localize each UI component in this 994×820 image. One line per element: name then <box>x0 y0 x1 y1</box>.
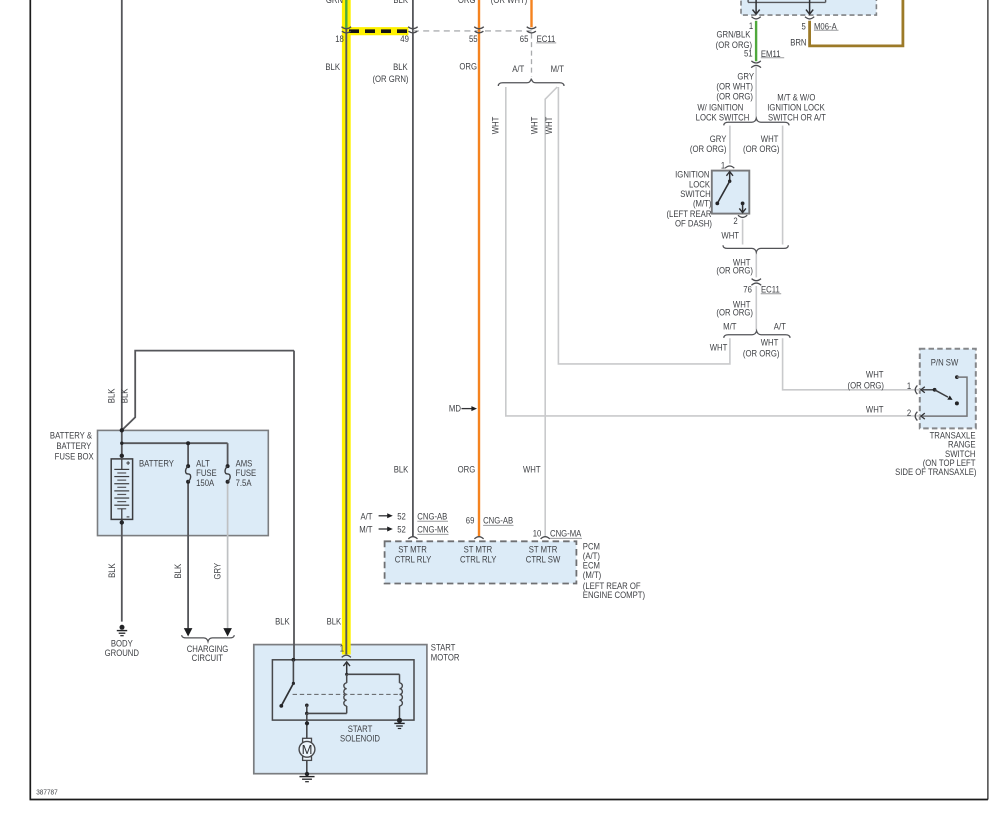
wire WHT M/T branch to 10 CNG-MA <box>545 87 557 536</box>
label pin 55 <box>469 34 478 45</box>
pin 1 connector arc M06-A <box>752 17 761 19</box>
label GRY (OR ORG) <box>690 134 727 155</box>
label (OR WHT) wire (cut at top) <box>491 0 528 5</box>
label WHT at P/N SW pin 2 <box>866 404 884 415</box>
coil pull-in winding L1 <box>344 674 347 713</box>
label GRN wire (cut at top) <box>326 0 343 5</box>
svg-text:ORG: ORG <box>458 0 476 5</box>
label GRY (OR WHT) (OR ORG) <box>716 71 754 102</box>
svg-text:BATTERY: BATTERY <box>56 441 91 452</box>
svg-text:(OR ORG): (OR ORG) <box>743 143 780 154</box>
svg-text:GRY: GRY <box>212 563 223 580</box>
label BATTERY & BATTERY FUSE BOX <box>50 430 94 462</box>
battery terminal junction dots <box>120 428 124 525</box>
svg-text:(OR ORG): (OR ORG) <box>690 143 727 154</box>
brace merge above 76 EC11 <box>723 245 788 252</box>
connector pin 49 <box>408 27 418 33</box>
svg-text:2: 2 <box>907 407 912 418</box>
svg-text:ORG: ORG <box>459 61 477 72</box>
label GRN/BLK (OR ORG) <box>716 29 753 50</box>
wire WHT from ignition lock switch pin 2 <box>742 219 744 244</box>
ground start motor case <box>299 772 314 782</box>
svg-text:CIRCUIT: CIRCUIT <box>192 653 223 664</box>
switch arm ignition lock switch <box>715 180 731 206</box>
pin 1 connector arc P/N SW <box>915 385 917 394</box>
svg-text:BLK: BLK <box>106 563 117 578</box>
label pin 2 P/N SW <box>907 407 912 418</box>
label 76 EC11 <box>743 284 781 295</box>
connector pin 18 <box>342 27 352 33</box>
label GRY rotated AMS <box>212 563 223 580</box>
label ORG mid <box>458 464 476 475</box>
junction dot BLK at solenoid box <box>292 658 296 662</box>
brace charging circuit <box>182 635 235 642</box>
svg-text:WHT: WHT <box>721 230 739 241</box>
label pin 2 ignition lock switch <box>733 216 738 227</box>
connector pin 55 <box>474 27 484 33</box>
svg-text:WHT: WHT <box>490 117 501 135</box>
ground start solenoid coil <box>394 718 404 729</box>
label CHARGING CIRCUIT <box>187 643 229 663</box>
svg-text:WHT: WHT <box>866 369 884 380</box>
pin 5 connector arc M06-A <box>805 17 814 19</box>
pin 2 contact and arrow ignition lock switch <box>739 202 746 213</box>
pin 1 connector arc ignition lock switch <box>725 166 734 168</box>
label WHT M/T branch <box>710 342 728 353</box>
brace split w/ignition lock switch <box>724 118 789 125</box>
pin 2 connector arc P/N SW <box>915 412 917 421</box>
junction dot coil feed <box>345 673 348 676</box>
label WHT (OR ORG) A/T branch <box>743 337 780 359</box>
label pin 5 M06-A <box>801 21 838 32</box>
svg-text:GRN: GRN <box>326 0 343 5</box>
wire BLK from start motor feed, horizontal run y350 <box>122 351 294 431</box>
svg-text:SOLENOID: SOLENOID <box>340 733 380 744</box>
wire ALT fuse feed and BLK to charging circuit <box>187 443 189 628</box>
wire BLK down to start motor switch <box>293 351 295 660</box>
svg-text:1: 1 <box>721 160 726 171</box>
wire WHT M/T branch to ignition lock circuit <box>558 87 730 364</box>
svg-text:1: 1 <box>907 380 912 391</box>
svg-text:BLK: BLK <box>327 616 342 627</box>
arrow M/T pin row <box>379 527 393 532</box>
label ORG 55 <box>459 61 477 72</box>
svg-text:69: 69 <box>466 515 475 526</box>
svg-text:387787: 387787 <box>36 789 58 797</box>
svg-text:M/T: M/T <box>359 524 372 535</box>
svg-text:P/N SW: P/N SW <box>931 357 959 368</box>
PCM/ECM dashed box <box>385 541 577 583</box>
label BLK wire (cut at top) <box>393 0 408 5</box>
yellow highlighted dashed jumper 18-49 <box>342 27 409 35</box>
svg-text:(M/T): (M/T) <box>693 198 712 209</box>
svg-text:(OR GRN): (OR GRN) <box>372 73 408 84</box>
svg-text:M/T: M/T <box>723 321 736 332</box>
svg-text:BRN: BRN <box>790 37 806 48</box>
wire WHT (OR ORG) bypass branch <box>782 126 784 245</box>
wire dashed to A/T-M/T split <box>531 34 533 77</box>
wire BLK core of highlighted wire <box>345 29 347 655</box>
svg-text:BLK: BLK <box>394 464 409 475</box>
svg-text:GRN/BLK: GRN/BLK <box>716 29 750 40</box>
label BODY GROUND <box>105 638 139 658</box>
wire AMS fuse feed <box>227 443 229 466</box>
wire coil link horizontal <box>347 673 400 675</box>
start solenoid inner box <box>272 660 414 720</box>
svg-text:65: 65 <box>520 33 529 44</box>
ignition lock switch box U2 <box>712 171 750 214</box>
battery & battery fuse box <box>98 430 269 535</box>
svg-text:CTRL RLY: CTRL RLY <box>460 554 497 565</box>
svg-text:GROUND: GROUND <box>105 647 139 658</box>
svg-text:A/T: A/T <box>774 321 786 332</box>
label M/T & W/O IGNITION LOCK SWITCH OR A/T <box>767 92 826 123</box>
wire solenoid to motor <box>305 713 309 738</box>
svg-text:WHT: WHT <box>761 337 779 348</box>
svg-text:18: 18 <box>335 34 344 45</box>
label 10 CNG-MA <box>533 528 582 539</box>
label AMS FUSE 7.5A <box>236 458 257 488</box>
relay block inner rectangle inside M06-A box <box>748 0 826 2</box>
wire BLK (OR GRN) pin 49 to CNG-AB/MK <box>412 0 414 536</box>
wire WHT (OR ORG) A/T branch to P/N SW pin 1 <box>783 338 920 390</box>
svg-text:ENGINE COMPT): ENGINE COMPT) <box>583 590 645 601</box>
svg-text:BLK: BLK <box>119 388 130 403</box>
arrow A/T pin row <box>379 513 393 518</box>
label BLK at start motor switch <box>275 616 290 627</box>
label MD <box>449 403 461 414</box>
wire BLK battery positive from top <box>121 0 123 456</box>
label BLK rotated battery ground <box>106 563 117 578</box>
label WHT rotated x3 <box>490 117 554 135</box>
pin 69 connector arc CNG-AB <box>474 537 483 539</box>
label pin 1 M06-A <box>749 20 754 31</box>
svg-text:CTRL RLY: CTRL RLY <box>395 554 432 565</box>
svg-text:(OR ORG): (OR ORG) <box>716 265 753 276</box>
label 69 CNG-AB <box>466 515 514 526</box>
svg-text:BLK: BLK <box>325 61 340 72</box>
wire inside P/N SW to pin 2 <box>921 375 967 419</box>
pin 1 connector arc start motor <box>342 655 351 657</box>
svg-text:52: 52 <box>397 511 406 522</box>
brace split A/T - M/T top <box>498 79 564 86</box>
svg-text:SIDE OF TRANSAXLE): SIDE OF TRANSAXLE) <box>895 466 977 477</box>
label BLK (OR GRN) 49 <box>372 61 408 84</box>
pin 52 connector arc CNG-AB/CNG-MK <box>408 537 417 539</box>
svg-text:WHT: WHT <box>529 117 540 135</box>
label pin 1 ignition lock switch <box>721 160 726 171</box>
svg-text:76: 76 <box>743 284 752 295</box>
wire ORG pin 55 to 69 CNG-AB <box>478 0 480 536</box>
svg-text:BLK: BLK <box>393 61 408 72</box>
label ST MTR CTRL RLY (A/T) <box>395 544 432 565</box>
label BLK at start motor yellow wire <box>327 616 342 627</box>
svg-text:(OR ORG): (OR ORG) <box>848 380 885 391</box>
label START MOTOR <box>431 642 460 663</box>
svg-text:LOCK SWITCH: LOCK SWITCH <box>696 112 750 123</box>
wire WHT A/T branch to P/N SW pin 2 <box>506 87 920 416</box>
svg-text:10: 10 <box>533 528 542 539</box>
svg-text:55: 55 <box>469 34 478 45</box>
svg-text:SWITCH OR A/T: SWITCH OR A/T <box>768 112 826 123</box>
pin 1 arrow start motor <box>343 662 350 674</box>
wire bus inside battery fuse box <box>122 442 228 444</box>
pin 5 arrow inside M06-A <box>806 0 813 14</box>
svg-text:BATTERY: BATTERY <box>139 458 174 469</box>
label WHT (OR ORG) at P/N SW pin 1 <box>848 369 885 391</box>
label WHT (OR ORG) right branch <box>743 134 780 155</box>
motor M1 start motor <box>299 738 315 760</box>
svg-text:CNG-MK: CNG-MK <box>417 524 449 535</box>
svg-text:M: M <box>302 742 313 757</box>
label A/T 52 CNG-AB <box>360 511 448 522</box>
label M/T A/T split bottom <box>723 321 786 332</box>
label pin 1 start motor <box>340 643 345 654</box>
connector M06-A dashed box (top right, cut off at top) <box>741 0 876 15</box>
svg-text:FUSE BOX: FUSE BOX <box>55 451 94 462</box>
svg-text:WHT: WHT <box>866 404 884 415</box>
label BLK 18 <box>325 61 340 72</box>
dashed mechanical linkage <box>293 693 399 695</box>
battery B1 <box>111 459 132 520</box>
svg-text:1: 1 <box>340 643 345 654</box>
label drawing number 387787 <box>36 789 58 797</box>
svg-text:CTRL SW: CTRL SW <box>526 554 561 565</box>
fuse AMS FUSE 7.5A <box>225 464 230 484</box>
svg-text:5: 5 <box>801 21 806 32</box>
svg-text:ORG: ORG <box>458 464 476 475</box>
label pin 1 P/N SW <box>907 380 912 391</box>
label PCM (A/T) ECM (M/T) (LEFT REAR OF ENGINE COMPT) <box>583 541 645 601</box>
svg-text:(OR ORG): (OR ORG) <box>743 348 780 359</box>
svg-text:(OR ORG): (OR ORG) <box>716 91 753 102</box>
label ALT FUSE 150A <box>196 458 217 488</box>
start motor box <box>254 645 427 774</box>
svg-text:WHT: WHT <box>710 342 728 353</box>
wire GRY (OR WHT) below EM11 <box>755 67 757 122</box>
yellow highlighted wire (battery to start motor, vertical) <box>342 0 351 655</box>
wire motor to ground <box>306 760 308 774</box>
wire GRN/BLK pin 1 M06-A to 51 EM11 <box>755 21 757 62</box>
label A/T M/T split top <box>512 63 564 74</box>
brace split M/T - A/T below 76 EC11 <box>724 331 790 338</box>
wire ORG pin 65 stub <box>530 0 532 27</box>
svg-text:WHT: WHT <box>523 464 541 475</box>
svg-text:CNG-AB: CNG-AB <box>417 511 447 522</box>
svg-text:49: 49 <box>400 34 409 45</box>
svg-text:150A: 150A <box>196 477 214 488</box>
svg-text:OF DASH): OF DASH) <box>675 218 712 229</box>
junction dot fuse bus <box>186 441 190 445</box>
connector pin 65 EC11 <box>527 27 537 33</box>
svg-text:(OR ORG): (OR ORG) <box>716 307 753 318</box>
wire GRN core of highlighted wire (top) <box>345 0 347 29</box>
switch start solenoid contacts <box>279 660 308 715</box>
wire BLK battery negative to body ground <box>121 519 123 621</box>
wire BRN pin 5 M06-A <box>810 0 903 46</box>
svg-text:WHT: WHT <box>543 117 554 135</box>
label WHT mid <box>523 464 541 475</box>
label BATTERY <box>139 458 174 469</box>
label pin 18 <box>335 34 344 45</box>
svg-text:A/T: A/T <box>360 511 372 522</box>
svg-text:(M/T): (M/T) <box>583 570 602 581</box>
label P/N SW <box>931 357 959 368</box>
label 51 EM11 <box>744 48 784 59</box>
svg-text:BLK: BLK <box>393 0 408 5</box>
svg-text:52: 52 <box>397 524 406 535</box>
arrow MD ignition signal <box>462 406 478 411</box>
svg-text:(OR WHT): (OR WHT) <box>491 0 528 5</box>
wire solenoid contact to coil bottom <box>307 712 347 714</box>
fuse ALT FUSE 150A <box>186 464 191 484</box>
connector 51 EM11 <box>751 61 761 68</box>
pin 1 arrow P/N SW <box>921 387 935 393</box>
svg-text:MD: MD <box>449 403 461 414</box>
ground body ground G1 <box>117 625 127 636</box>
svg-text:MOTOR: MOTOR <box>431 652 460 663</box>
svg-text:CNG-AB: CNG-AB <box>483 515 513 526</box>
wire WHT (OR ORG) to 76 EC11 <box>755 251 757 331</box>
svg-text:M/T: M/T <box>551 63 564 74</box>
svg-text:BLK: BLK <box>106 388 117 403</box>
label ST MTR CTRL SW <box>526 544 561 565</box>
svg-text:BATTERY &: BATTERY & <box>50 430 92 441</box>
label BLK BLK rotated at battery feed <box>106 388 130 403</box>
label BLK rotated ALT <box>172 564 183 579</box>
svg-text:GRY: GRY <box>737 71 754 82</box>
label START SOLENOID <box>340 723 380 743</box>
svg-text:CNG-MA: CNG-MA <box>550 528 582 539</box>
label IGNITION LOCK SWITCH (M/T) (LEFT REAR OF DASH) <box>666 169 712 229</box>
wire GRY from AMS fuse to charging circuit <box>227 482 229 629</box>
svg-text:2: 2 <box>733 216 738 227</box>
pin 1 arrow ignition lock switch <box>726 172 733 182</box>
wire GRY (OR ORG) to ignition lock switch pin 1 <box>729 126 731 164</box>
transaxle range switch P/N SW dashed box <box>920 349 976 429</box>
arrow BLK to charging circuit <box>184 628 193 636</box>
connector 76 EC11 <box>751 279 761 286</box>
svg-text:M/T & W/O: M/T & W/O <box>777 92 815 103</box>
label M/T 52 CNG-MK <box>359 524 449 535</box>
wire thin dashed connector bus 49-65 <box>413 30 532 32</box>
pin 2 connector arc ignition lock switch <box>738 215 747 217</box>
pin 10 connector arc CNG-MA <box>541 537 550 539</box>
pin 1 arrow inside M06-A <box>753 0 760 14</box>
svg-text:A/T: A/T <box>512 63 524 74</box>
label TRANSAXLE RANGE SWITCH (ON TOP LEFT SIDE OF TRANSAXLE) <box>895 430 977 477</box>
label BRN <box>790 37 806 48</box>
label WHT (OR ORG) below 76 <box>716 299 753 318</box>
label ORG wire (cut at top) <box>458 0 476 5</box>
switch arm P/N SW <box>933 388 959 406</box>
label BLK mid <box>394 464 409 475</box>
svg-text:7.5A: 7.5A <box>236 477 252 488</box>
svg-text:BLK: BLK <box>275 616 290 627</box>
svg-text:START: START <box>431 642 456 653</box>
label WHT below ignition switch <box>721 230 739 241</box>
label WHT (OR ORG) above 76 <box>716 257 753 276</box>
coil hold winding L2 <box>400 674 403 720</box>
svg-text:BLK: BLK <box>172 564 183 579</box>
arrow GRY to charging circuit <box>223 628 232 636</box>
label pin 65 EC11 <box>520 33 556 44</box>
label W/ IGNITION LOCK SWITCH <box>696 102 750 122</box>
label ST MTR CTRL RLY (M/T) <box>460 544 497 565</box>
label pin 49 <box>400 34 409 45</box>
svg-text:51: 51 <box>744 48 753 59</box>
